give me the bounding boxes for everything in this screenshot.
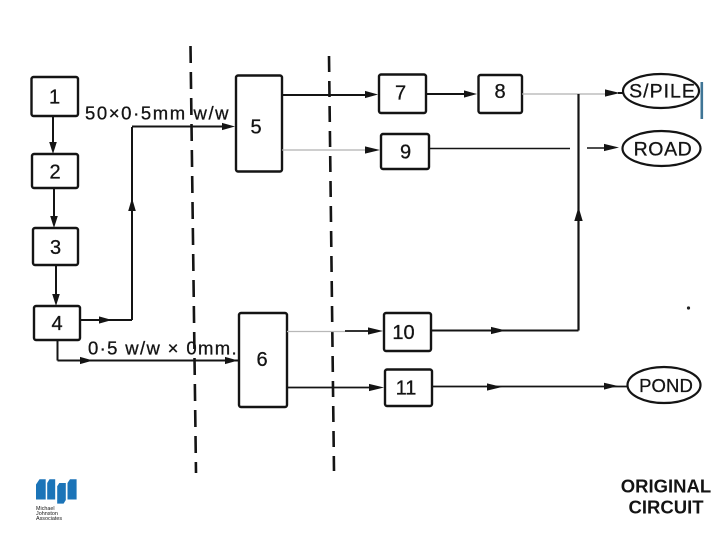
block 8 [479,75,523,113]
svg-text:8: 8 [494,81,505,103]
text cursor artifact [701,82,704,119]
svg-text:5: 5 [250,117,261,139]
wire 10 to collector [431,327,579,334]
svg-text:3: 3 [50,237,61,259]
svg-text:CIRCUIT: CIRCUIT [628,497,704,518]
block 3 [33,228,78,265]
wire 6 to 11 [287,384,384,391]
arrow into block 9 [365,146,380,153]
svg-text:4: 4 [51,313,62,335]
logo bar 3 [57,483,66,504]
wire 4 bottom down [57,340,59,361]
block 11 [385,370,432,407]
svg-text:S/PILE: S/PILE [629,81,696,103]
block 7 [379,75,426,114]
svg-text:6: 6 [256,349,267,371]
wire 3 to 4 [52,265,60,306]
svg-text:0·5 w/w × 0mm.: 0·5 w/w × 0mm. [88,338,238,359]
logo text [36,506,62,522]
wire riser to block 5 [132,123,235,130]
wire 4 right to riser [80,316,132,323]
arrow into S/PILE [605,89,623,96]
svg-text:ORIGINAL: ORIGINAL [621,476,711,497]
logo bar 4 [68,479,77,499]
wire 2 to 3 [50,188,58,228]
collector wire vertical [574,94,582,331]
svg-text:Associates: Associates [36,516,62,522]
wire 5 to 9 faint [282,149,366,151]
wire 6 to 10 faint [287,331,345,333]
block 10 [384,313,431,351]
wire 11 to POND [432,383,627,391]
wire 9 to ROAD [429,144,619,151]
block 9 [381,134,429,169]
wire 4 to block 6 [58,357,239,364]
svg-text:9: 9 [400,142,411,164]
svg-text:ROAD: ROAD [634,139,693,161]
node POND [628,367,701,403]
block 2 [32,154,78,188]
dashed boundary line right [329,56,334,471]
block 6 [239,313,287,407]
svg-text:POND: POND [639,375,693,396]
svg-text:10: 10 [392,322,414,344]
stray dot [687,306,690,309]
svg-text:1: 1 [49,87,60,109]
node S/PILE [623,74,699,108]
svg-text:7: 7 [395,83,406,105]
wire 1 to 2 [49,116,57,154]
block 5 [236,76,282,172]
wire 8 to S/PILE faint [522,93,606,95]
logo bar 1 [36,479,46,499]
logo bar 2 [47,479,55,499]
block 4 [34,306,80,340]
wire 5 to 7 [282,91,378,98]
dashed boundary line left [191,46,197,473]
block 1 [32,77,79,116]
svg-text:50×0·5mm w/w: 50×0·5mm w/w [85,103,230,124]
svg-text:11: 11 [396,378,417,400]
node ROAD [623,131,701,166]
riser wire up [128,127,136,320]
wire 7 to 8 [426,90,477,97]
svg-text:2: 2 [49,162,60,184]
wire 6 to 10 dark part [345,327,383,334]
